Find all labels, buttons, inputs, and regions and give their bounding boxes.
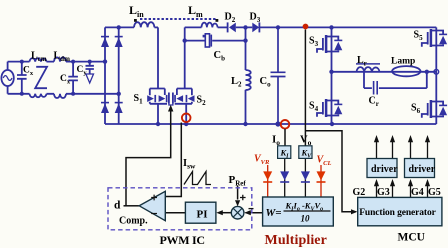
svg-text:G2: G2 <box>353 187 366 198</box>
svg-text:Function generator: Function generator <box>359 208 436 218</box>
svg-text:Vo: Vo <box>300 135 312 148</box>
svg-text:Lm: Lm <box>188 3 203 19</box>
svg-text:Lin: Lin <box>129 3 144 19</box>
svg-text:Multiplier: Multiplier <box>265 233 327 248</box>
svg-text:S6: S6 <box>411 103 421 116</box>
svg-text:S5: S5 <box>414 30 424 43</box>
svg-text:Io: Io <box>272 134 280 148</box>
svg-text:S1: S1 <box>134 93 144 106</box>
svg-text:G4: G4 <box>411 187 424 198</box>
svg-text:Co: Co <box>260 76 272 89</box>
svg-text:driver: driver <box>409 164 436 175</box>
svg-text:D3: D3 <box>250 12 261 25</box>
svg-text:Isw: Isw <box>183 158 196 171</box>
svg-text:PWM IC: PWM IC <box>160 233 205 247</box>
svg-text:Cr: Cr <box>369 96 379 109</box>
svg-text:L2: L2 <box>231 76 242 89</box>
svg-text:G3: G3 <box>377 187 390 198</box>
svg-text:Lcm: Lcm <box>31 51 47 64</box>
svg-text:10: 10 <box>301 214 311 224</box>
svg-text:d: d <box>114 200 121 212</box>
svg-text:S3: S3 <box>309 36 319 49</box>
svg-text:S2: S2 <box>197 95 207 108</box>
svg-text:MCU: MCU <box>398 232 426 244</box>
svg-text:VVR: VVR <box>254 154 270 167</box>
svg-text:Cb: Cb <box>214 50 226 63</box>
svg-text:PRef: PRef <box>229 174 247 188</box>
svg-text:driver: driver <box>371 164 398 175</box>
svg-text:VCL: VCL <box>317 155 332 168</box>
svg-text:Cx: Cx <box>23 66 34 78</box>
svg-text:Comp.: Comp. <box>119 216 148 227</box>
svg-text:Lamp: Lamp <box>391 57 415 67</box>
svg-text:D2: D2 <box>225 12 236 25</box>
svg-text:Lr: Lr <box>357 55 367 68</box>
svg-text:Cy: Cy <box>77 65 88 77</box>
svg-text:G5: G5 <box>428 187 441 198</box>
svg-text:W=: W= <box>266 207 282 219</box>
svg-text:Ldm: Ldm <box>54 51 71 64</box>
svg-text:PI: PI <box>197 209 208 221</box>
svg-text:S4: S4 <box>309 101 319 114</box>
